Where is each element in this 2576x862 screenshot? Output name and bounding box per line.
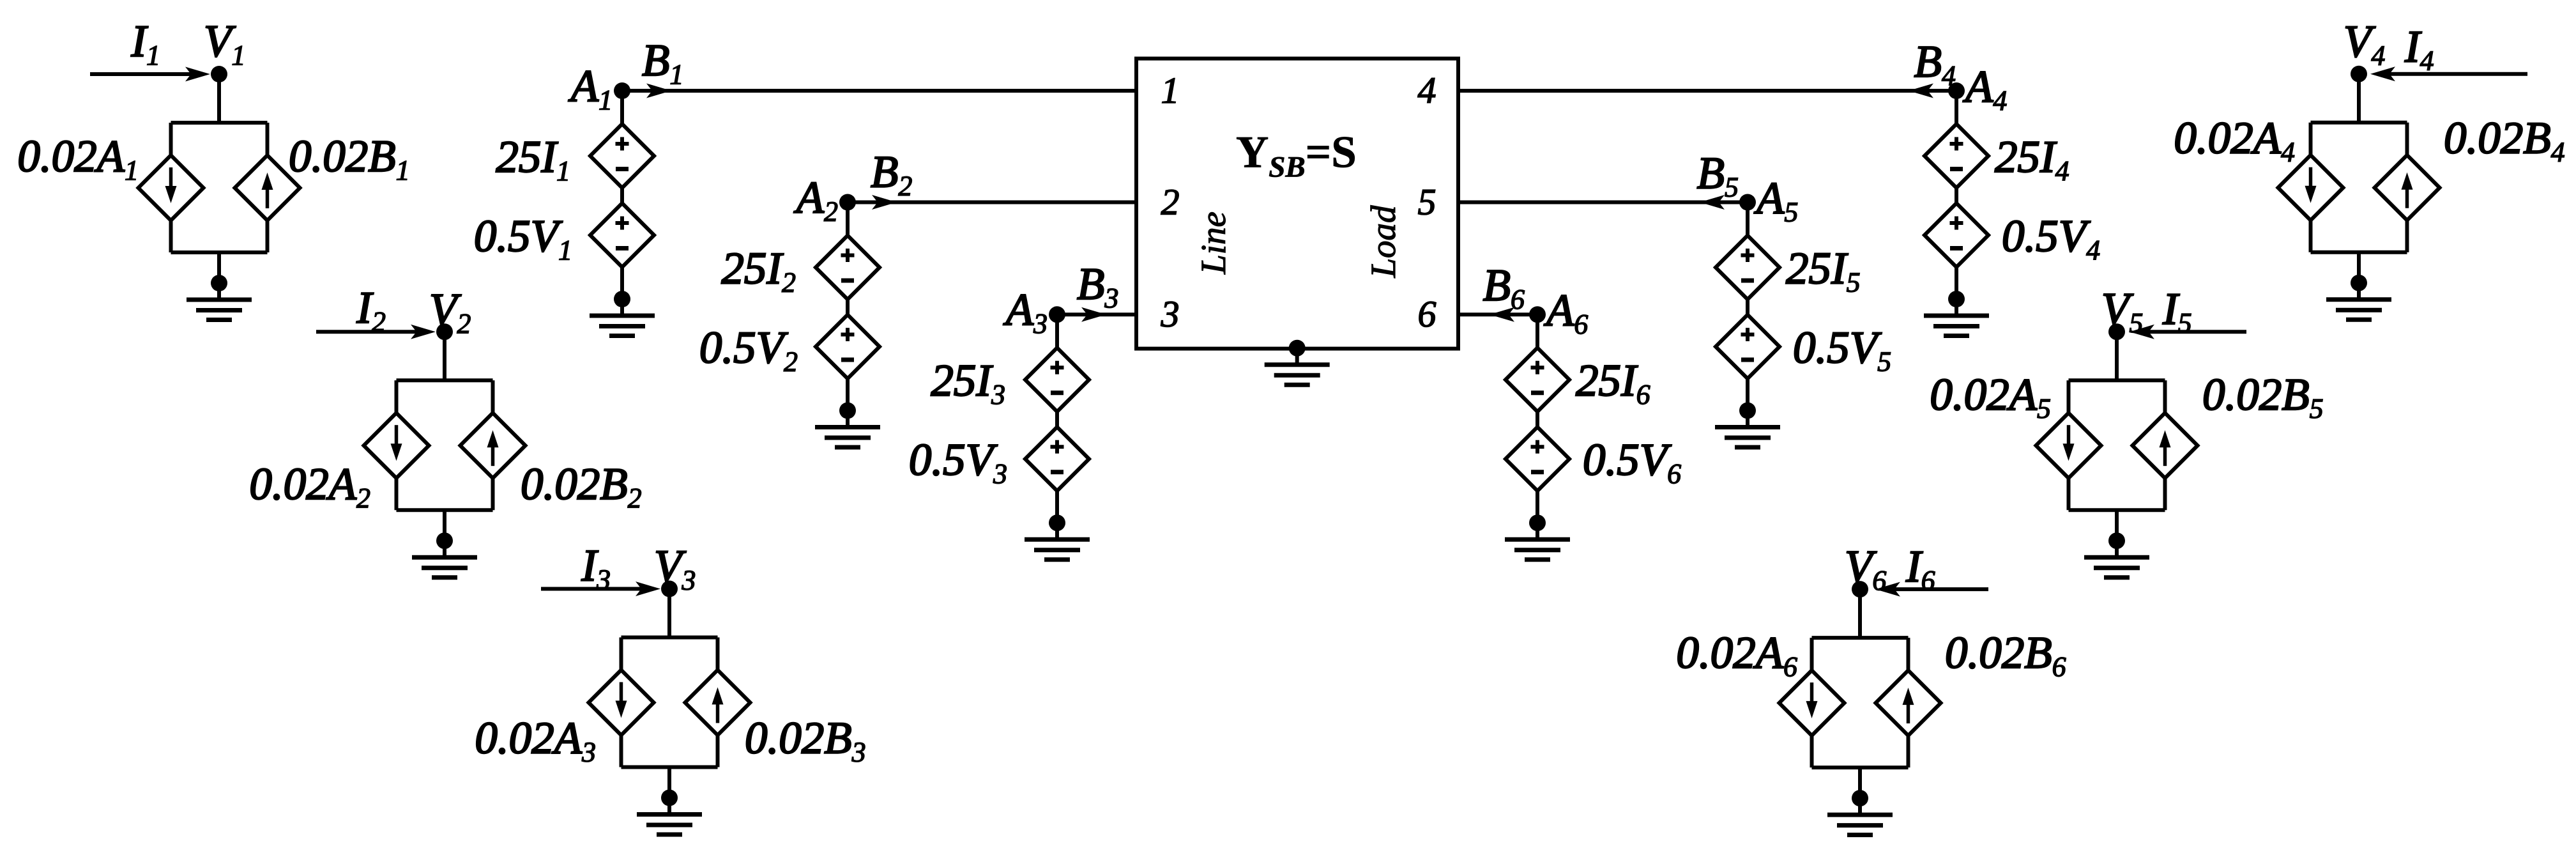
svg-text:0.02A4: 0.02A4 [2174,114,2295,168]
svg-text:0.5V1: 0.5V1 [474,212,572,266]
svg-text:0.02A6: 0.02A6 [1676,628,1797,682]
svg-text:2: 2 [1161,181,1180,223]
svg-text:0.02B6: 0.02B6 [1945,628,2066,682]
svg-text:5: 5 [1418,181,1437,223]
svg-text:3: 3 [1161,293,1180,335]
svg-text:0.02A1: 0.02A1 [17,132,139,186]
svg-text:0.02B3: 0.02B3 [745,714,866,768]
svg-text:0.02B1: 0.02B1 [289,132,410,186]
svg-text:0.02B2: 0.02B2 [521,459,642,514]
svg-text:0.02B4: 0.02B4 [2444,114,2565,168]
svg-text:Line: Line [1194,212,1233,275]
svg-text:6: 6 [1418,293,1437,335]
svg-text:0.5V2: 0.5V2 [699,323,798,378]
svg-text:0.5V5: 0.5V5 [1793,323,1891,378]
svg-text:Load: Load [1364,205,1403,279]
svg-text:1: 1 [1161,70,1180,111]
svg-text:0.02A3: 0.02A3 [475,714,596,768]
svg-text:4: 4 [1418,70,1437,111]
svg-text:0.02B5: 0.02B5 [2202,370,2324,424]
svg-text:0.02A5: 0.02A5 [1930,370,2051,424]
svg-text:0.02A2: 0.02A2 [249,459,370,514]
svg-text:0.5V3: 0.5V3 [909,435,1007,489]
svg-text:0.5V4: 0.5V4 [2002,212,2100,266]
svg-text:0.5V6: 0.5V6 [1583,435,1681,489]
